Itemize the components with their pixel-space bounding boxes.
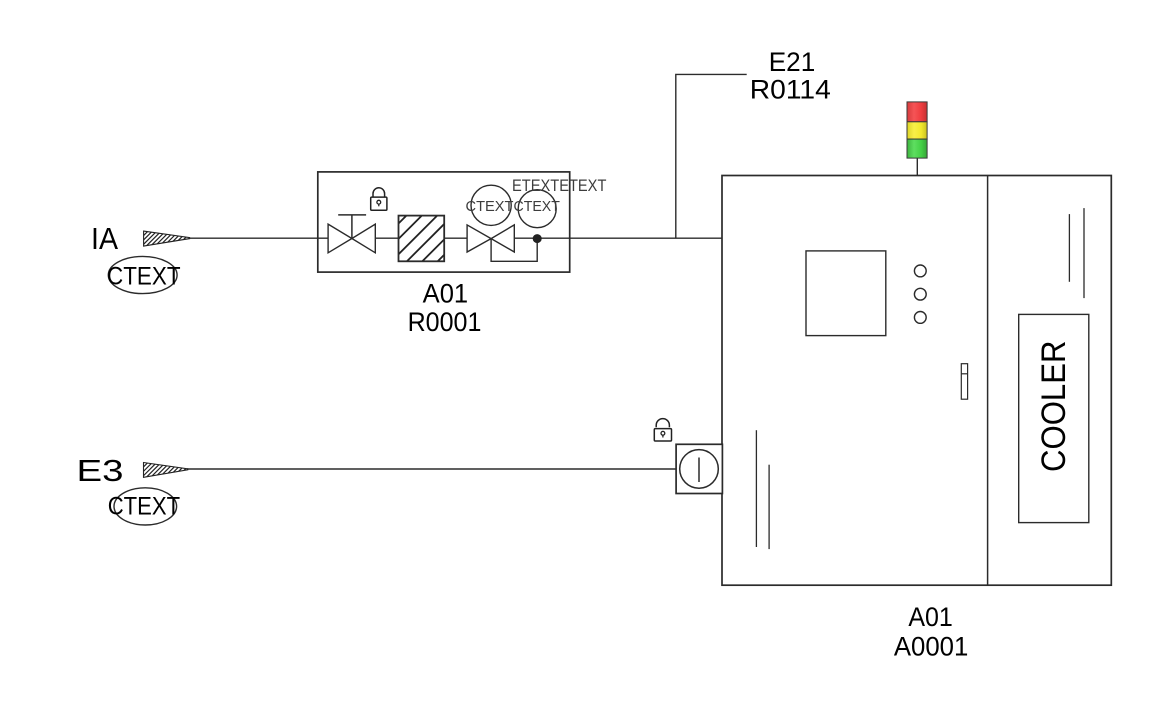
- svg-text:R0001: R0001: [408, 307, 482, 337]
- svg-text:CTEXT: CTEXT: [107, 262, 181, 290]
- svg-text:ETEXTETEXT: ETEXTETEXT: [512, 176, 606, 195]
- svg-text:COOLER: COOLER: [1035, 341, 1073, 473]
- svg-text:E3: E3: [77, 453, 124, 488]
- svg-text:R0114: R0114: [750, 74, 831, 104]
- svg-text:CTEXT: CTEXT: [466, 198, 514, 215]
- svg-text:IA: IA: [91, 221, 118, 256]
- svg-text:CTEXT: CTEXT: [108, 493, 180, 521]
- svg-text:A01: A01: [423, 279, 469, 309]
- svg-text:A01: A01: [908, 602, 953, 632]
- svg-text:CTEXT: CTEXT: [514, 198, 560, 215]
- svg-text:A0001: A0001: [894, 631, 969, 661]
- svg-text:E21: E21: [769, 47, 816, 77]
